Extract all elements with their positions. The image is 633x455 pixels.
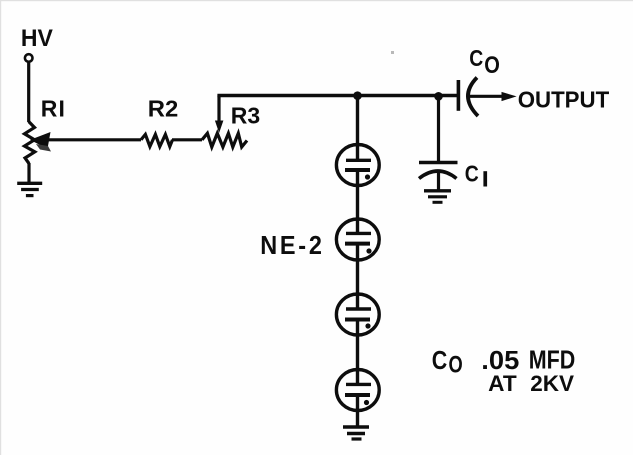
svg-text:R2: R2 [148,96,179,122]
svg-text:O: O [484,52,500,79]
svg-text:O: O [449,352,463,379]
svg-text:AT: AT [488,371,517,396]
svg-text:OUTPUT: OUTPUT [518,86,610,112]
svg-text:C: C [469,45,483,71]
svg-text:R3: R3 [231,103,260,129]
svg-text:C: C [432,347,448,375]
svg-text:C: C [465,161,479,187]
svg-text:HV: HV [21,25,54,52]
svg-text:2KV: 2KV [530,371,574,396]
svg-text:NE-2: NE-2 [260,232,324,260]
svg-text:RI: RI [41,95,66,121]
